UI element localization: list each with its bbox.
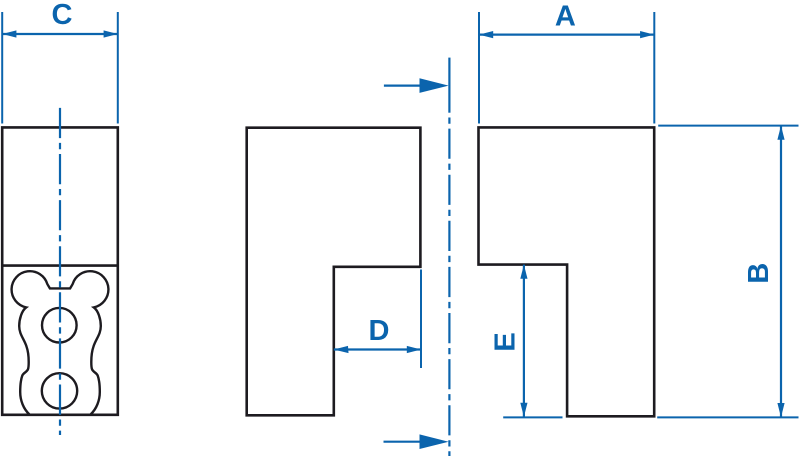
left view lower hole [42,373,77,408]
dimension A extension line left [478,12,480,124]
section arrow top tail [384,84,424,86]
left view bear-profile outline [12,271,109,414]
section arrow bottom head [420,434,449,449]
dimension C line [2,33,118,35]
dimension E arrowhead top [520,265,527,279]
dimension D arrowhead right [407,346,421,353]
dimension C arrowhead right [104,30,118,37]
dimension B arrowhead top [777,126,784,140]
dimension C arrowhead left [2,30,16,37]
dimension C extension line right [117,12,119,124]
svg-text:C: C [52,0,73,31]
middle view outline [247,128,421,416]
svg-text:E: E [489,332,521,351]
dimension A arrowhead left [479,31,493,38]
dimension B extension line bottom left segment [503,416,562,418]
dimension D arrowhead left [334,346,349,353]
section cut line solid head [448,58,450,113]
dimension B line [780,126,782,418]
svg-text:D: D [369,315,390,347]
left view centerline [59,108,61,435]
left view divider line [2,264,118,267]
dimension B extension line bottom right segment [657,416,798,418]
dimension B extension line top [658,125,798,127]
left view body rectangle [2,127,118,414]
svg-text:A: A [555,0,576,32]
dimension A line [479,33,654,35]
left view upper hole [42,308,77,343]
dimension E line [523,265,525,417]
dimension D line [334,348,421,350]
svg-text:B: B [743,263,775,284]
dimension A arrowhead right [640,31,654,38]
dimension D extension line right [420,270,422,369]
dimension E arrowhead bottom [520,403,527,417]
section arrow top head [420,78,449,93]
right view outline [479,127,655,416]
section cut line dashed part [448,118,450,457]
dimension B arrowhead bottom [777,403,784,417]
dimension C extension line left [1,12,3,124]
dimension A extension line right [653,12,655,124]
section arrow bottom tail [384,441,425,443]
